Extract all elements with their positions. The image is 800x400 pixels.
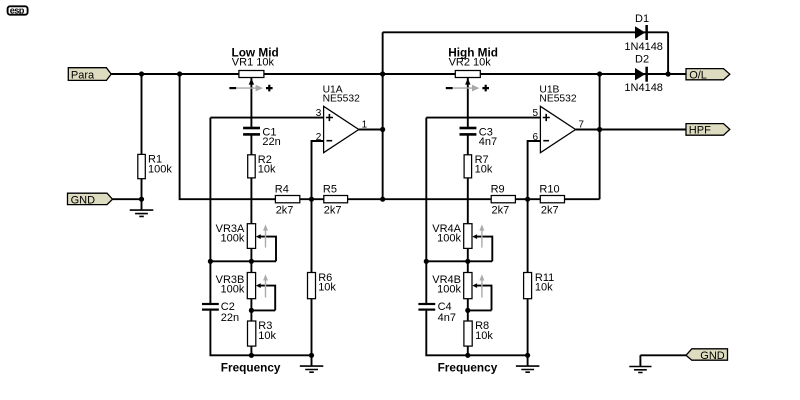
svg-text:2k7: 2k7 [276, 204, 294, 216]
svg-text:D1: D1 [635, 13, 649, 25]
svg-text:22n: 22n [221, 312, 239, 324]
resistor R9 [491, 183, 516, 216]
potentiometer VR1 [229, 45, 278, 91]
svg-text:10k: 10k [535, 282, 553, 294]
svg-text:R4: R4 [275, 183, 289, 195]
ground (right Frequency) [516, 366, 540, 372]
resistor R8 [464, 320, 493, 346]
resistor R3 [248, 320, 277, 346]
svg-text:100k: 100k [437, 284, 461, 296]
capacitor C3 [460, 126, 498, 148]
svg-text:5: 5 [533, 108, 539, 119]
wire: U1A pin2 stub [312, 141, 324, 199]
wire: main Para row y=74 [111, 73, 686, 75]
op-amp U1B [533, 84, 585, 152]
resistor R1 [138, 154, 173, 179]
svg-text:4n7: 4n7 [438, 312, 456, 324]
resistor R7 [464, 154, 493, 178]
wire: U1B pin5 row [426, 117, 540, 119]
wire: C3-R7-VR4A-VR4B-R8 column [467, 136, 469, 356]
op-amp U1A [316, 84, 368, 152]
tag Para [68, 68, 111, 82]
svg-text:10k: 10k [258, 164, 276, 176]
svg-text:2: 2 [316, 132, 322, 143]
potentiometer VR4A [432, 223, 484, 248]
svg-text:Frequency: Frequency [438, 361, 498, 375]
wire: VR4B wiper return [468, 286, 492, 311]
svg-text:GND: GND [700, 350, 725, 362]
wire: U1A output [359, 129, 383, 131]
wire: C1-R2-VR3A-VR3B-R3 column [250, 136, 252, 356]
wire: R1 column [141, 74, 143, 210]
svg-text:100k: 100k [148, 163, 172, 175]
svg-text:7: 7 [578, 119, 584, 130]
svg-text:6: 6 [533, 132, 539, 143]
svg-text:D2: D2 [635, 54, 649, 66]
wire: VR4A bottom row y=261.3 [426, 260, 492, 262]
wire: VR2 wiper down to C3 [467, 78, 469, 127]
wire: VR3A bottom row y=261.3 [210, 260, 276, 262]
svg-text:VR1 10k: VR1 10k [232, 56, 275, 68]
tag HPF [686, 124, 730, 137]
resistor R5 [323, 183, 348, 216]
wire: VR1 wiper down to C1 [250, 78, 252, 127]
svg-text:100k: 100k [221, 284, 245, 296]
svg-text:VR2 10k: VR2 10k [449, 56, 492, 68]
resistor R6 [308, 272, 337, 299]
potentiometer VR3A [216, 223, 268, 248]
ground (left Frequency) [300, 366, 324, 372]
svg-text:1N4148: 1N4148 [624, 41, 663, 53]
wire: vertical x=599.6 U1B out bus [599, 74, 601, 199]
ESP logo [8, 5, 28, 15]
potentiometer VR3B [216, 273, 268, 299]
svg-text:4n7: 4n7 [479, 136, 497, 148]
svg-text:HPF: HPF [689, 125, 711, 137]
svg-text:GND: GND [71, 194, 96, 206]
capacitor C1 [243, 126, 281, 148]
svg-text:NE5532: NE5532 [323, 94, 360, 105]
svg-text:2k7: 2k7 [324, 204, 342, 216]
diode D1 [624, 13, 663, 53]
wire: feedback row y=199.2 [300, 198, 600, 200]
tag O/L [686, 69, 730, 82]
svg-text:R10: R10 [539, 183, 559, 195]
wire: left column x=210.4 C2 branch [210, 118, 311, 356]
svg-text:3: 3 [316, 108, 322, 119]
wire: right column x=426.3 C4 branch [426, 118, 527, 356]
wire: R6 column [311, 199, 313, 366]
wire: vertical x=382.65 U1A out bus [382, 32, 384, 199]
svg-text:10k: 10k [318, 282, 336, 294]
tag GND left [68, 193, 113, 206]
svg-text:22n: 22n [262, 136, 280, 148]
wire: GND tag lead [113, 198, 142, 200]
svg-text:O/L: O/L [689, 69, 707, 81]
svg-text:10k: 10k [258, 330, 276, 342]
svg-text:100k: 100k [221, 233, 245, 245]
resistor R11 [524, 272, 555, 299]
potentiometer VR2 [446, 45, 498, 91]
svg-text:100k: 100k [437, 233, 461, 245]
wire: U1B output / HPF row [576, 129, 686, 131]
svg-text:NE5532: NE5532 [539, 94, 576, 105]
svg-text:Para: Para [71, 70, 95, 82]
tag GND bottom right [686, 349, 728, 362]
wire: bottom-right ground lead [640, 355, 686, 366]
diode D2 [624, 54, 663, 94]
svg-text:1: 1 [362, 119, 368, 130]
svg-text:esp: esp [10, 5, 25, 15]
wire: x=179.6 vertical to feedback row [180, 74, 276, 199]
svg-text:Frequency: Frequency [221, 361, 281, 375]
svg-text:R9: R9 [491, 183, 505, 195]
resistor R10 [539, 183, 564, 216]
potentiometer VR4B [432, 273, 484, 299]
wire: R11 column [527, 199, 529, 366]
resistor R2 [248, 154, 276, 178]
svg-text:10k: 10k [475, 164, 493, 176]
wire: U1A pin3 row [210, 117, 323, 119]
svg-text:R5: R5 [323, 183, 337, 195]
wire: U1B pin6 stub [528, 141, 541, 199]
capacitor C4 [418, 301, 456, 324]
svg-text:2k7: 2k7 [492, 204, 510, 216]
wire: top D1 row [383, 32, 668, 74]
svg-text:2k7: 2k7 [541, 204, 559, 216]
svg-text:10k: 10k [475, 330, 493, 342]
ground (left GND) [130, 210, 154, 216]
capacitor C2 [202, 301, 239, 324]
ground (bottom right) [629, 367, 651, 373]
wire: VR4A wiper return [475, 237, 492, 262]
svg-text:1N4148: 1N4148 [624, 82, 663, 94]
resistor R4 [275, 183, 300, 216]
wire: VR3B wiper return [251, 286, 275, 311]
wire: VR3A wiper return [259, 237, 276, 262]
